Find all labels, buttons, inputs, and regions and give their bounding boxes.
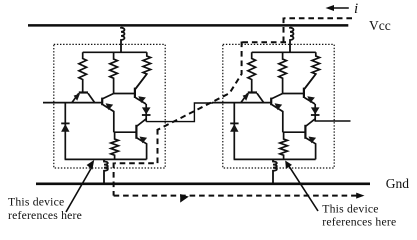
- svg-text:i: i: [354, 1, 358, 17]
- svg-text:This device: This device: [8, 196, 64, 209]
- svg-text:references here: references here: [322, 216, 396, 229]
- svg-text:Gnd: Gnd: [386, 176, 409, 191]
- svg-text:references here: references here: [8, 209, 82, 222]
- svg-text:Vcc: Vcc: [369, 18, 391, 33]
- svg-text:This device: This device: [322, 202, 378, 215]
